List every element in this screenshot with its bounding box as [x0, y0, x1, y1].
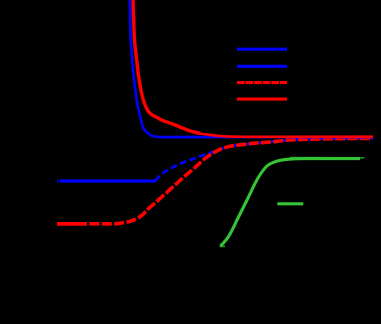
legend line 5: green solid (separate legend) — [277, 202, 303, 205]
curve: red solid underlay at left of lower line — [57, 222, 87, 226]
curve: dark green thin line over plateau — [290, 157, 365, 159]
curve: blue flat line (left, y=181) — [57, 179, 156, 182]
legend line 4: red solid — [237, 98, 287, 101]
curve: blue dashed rising (156 to 221) — [156, 149, 221, 181]
legend line 1: blue solid — [237, 48, 287, 51]
curve: bright green sigmoid — [221, 159, 361, 246]
curve: red decay steep part — [133, 0, 200, 133]
curve: blue decay (steep) with flat asymptote — [130, 0, 373, 137]
curve: dark green tick at sigmoid start — [220, 245, 226, 247]
legend line 3: red dashed — [237, 81, 287, 84]
legend line 2: blue solid — [237, 65, 287, 68]
curve: red thick dashed sigmoid (lower) — [57, 138, 373, 224]
curve: blue merged tail (under red dashes, 221 to 373) — [221, 138, 373, 149]
curve: red decay flat tail — [196, 133, 373, 137]
